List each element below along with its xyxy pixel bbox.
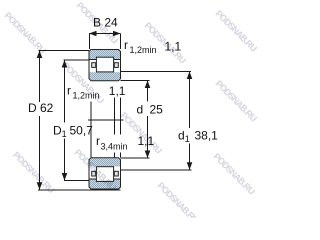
svg-text:1,2min: 1,2min [130, 45, 157, 55]
wire B dimension line [89, 33, 121, 35]
roller top [96, 57, 113, 72]
arrow B right [113, 31, 121, 37]
wire d1 dimension line [189, 72, 191, 170]
svg-text:r: r [67, 83, 71, 97]
outer ring + inner ring body top [89, 50, 121, 81]
cage left bottom [92, 171, 96, 176]
svg-text:1,1: 1,1 [109, 84, 126, 98]
arrow d top [145, 81, 151, 89]
svg-text:r: r [124, 38, 128, 52]
wire d dimension line [147, 81, 149, 159]
wire chamfer extension lines left pair [90, 102, 92, 158]
wire chamfer extension lines right pair lower [115, 152, 121, 157]
wire D dimension line [39, 51, 41, 190]
svg-text:d: d [137, 103, 144, 117]
outer raceway shoulder line top [90, 58, 120, 60]
arrowheads [37, 31, 193, 190]
wire D1 dimension line [64, 60, 66, 181]
svg-text:50,7: 50,7 [70, 123, 94, 137]
outer ring + inner ring body bottom [89, 158, 121, 189]
roller bottom [96, 167, 113, 182]
arrow d1 bottom [187, 162, 193, 170]
arrow B left [89, 31, 97, 37]
wire d1 top extension [121, 71, 192, 73]
arrow D bottom [37, 182, 43, 190]
wire d bottom extension [121, 157, 150, 159]
wire D1 bottom extension [64, 180, 90, 182]
cage right top [114, 63, 118, 68]
wire B extension right [120, 34, 122, 50]
arrow D top [37, 51, 43, 59]
wire D top extension [39, 50, 90, 52]
wire d1 bottom extension [121, 169, 192, 171]
watermark PODSNAB.RU tiles [3, 0, 259, 225]
arrow d bottom [145, 151, 151, 159]
wire D bottom extension [38, 189, 121, 191]
svg-text:r: r [96, 134, 100, 148]
arrow D1 bottom [62, 173, 68, 181]
bore zone white gap bottom [90, 166, 120, 178]
svg-text:3,4min: 3,4min [101, 141, 128, 151]
wire d top extension [121, 80, 150, 82]
wire axis centerline [88, 119, 124, 121]
cage right bottom [114, 171, 118, 176]
wire B extension left [89, 34, 91, 50]
cage left top [92, 63, 96, 68]
bearing top cross-section [89, 50, 121, 81]
outer raceway shoulder line bottom [90, 178, 120, 180]
svg-text:25: 25 [150, 103, 164, 117]
svg-text:D 62: D 62 [28, 101, 54, 115]
wire chamfer extension lines right pair [115, 98, 121, 135]
svg-text:38,1: 38,1 [195, 129, 219, 143]
arrow d1 top [187, 72, 193, 80]
bore zone white gap top [90, 60, 120, 72]
bearing bottom cross-section [89, 158, 121, 189]
wire D1 top extension [64, 59, 90, 61]
arrow D1 top [62, 60, 68, 68]
